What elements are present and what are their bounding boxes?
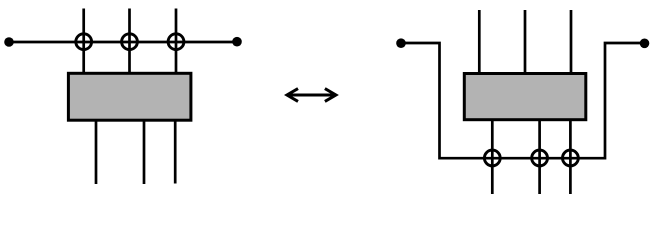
wire: left circuit bottom vertical line 1 [95, 121, 98, 184]
wire: right circuit bottom vertical line 3 [569, 119, 572, 194]
node: right endpoint dot of left wire [232, 37, 242, 47]
wire: left circuit top vertical line 1 [82, 9, 85, 75]
equivalence arrow [287, 89, 336, 102]
XOR target 1 on left wire [76, 34, 92, 50]
node: right endpoint dot of right wire [640, 39, 650, 49]
XOR target 2 on right bypass wire [532, 150, 548, 166]
node: left endpoint dot of right wire [396, 38, 406, 48]
wire: right circuit top vertical line 1 [478, 10, 481, 74]
box U1: left circuit gray block [68, 73, 190, 120]
node: left endpoint dot of left wire [4, 37, 14, 47]
wire: right circuit top vertical line 3 [570, 10, 573, 74]
XOR target 3 on left wire [168, 34, 184, 50]
wire: right circuit bottom vertical line 1 [491, 119, 494, 194]
wire: left circuit bottom vertical line 3 [174, 121, 177, 184]
wire: left circuit top vertical line 2 [128, 9, 131, 75]
wire: right circuit top vertical line 2 [524, 10, 527, 74]
XOR target 2 on left wire [122, 34, 138, 50]
wire: left circuit horizontal control wire [9, 41, 237, 44]
box U2: right circuit gray block [464, 74, 586, 120]
wire: left circuit top vertical line 3 [175, 9, 178, 75]
XOR target 3 on right bypass wire [563, 150, 579, 166]
wire: right circuit bottom vertical line 2 [538, 119, 541, 194]
wire: right circuit bypass wire (down, across bottom, up) [401, 43, 645, 158]
wire: left circuit bottom vertical line 2 [143, 121, 146, 184]
XOR target 1 on right bypass wire [484, 150, 500, 166]
